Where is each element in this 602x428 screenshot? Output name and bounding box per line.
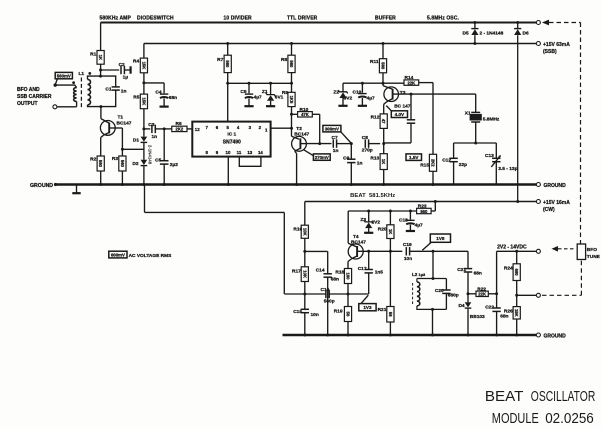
wire R24 top lead: [516, 251, 518, 263]
label 1V8 callout: [422, 234, 450, 250]
svg-text:MODULE: MODULE: [492, 411, 539, 427]
svg-text:BFO AND: BFO AND: [17, 87, 40, 93]
capacitor C19: [403, 242, 433, 262]
node beat R17 C15 junction: [303, 293, 306, 296]
resistor R13: [370, 144, 387, 185]
label BEAT 581.5KHz: [350, 193, 396, 199]
section label 5.8MHz OSC.: [427, 16, 459, 22]
resistor R11: [370, 59, 387, 73]
svg-text:12: 12: [195, 127, 200, 132]
node tank top junction: [99, 75, 102, 78]
svg-text:C3: C3: [148, 122, 154, 128]
wire tank bottom to ground: [432, 309, 434, 335]
wire R22 to C22 column: [488, 293, 496, 295]
node R2 ground: [99, 183, 102, 186]
node SSB rail junction R7: [226, 42, 229, 45]
svg-text:10: 10: [226, 150, 231, 155]
node R20 rail junction: [389, 210, 392, 213]
node R4 C4 junction: [142, 81, 145, 84]
svg-text:10K: 10K: [302, 228, 307, 236]
svg-text:AC VOLTAGE RMS: AC VOLTAGE RMS: [129, 253, 173, 259]
resistor R10: [292, 107, 313, 117]
svg-text:BFO: BFO: [587, 247, 597, 253]
svg-text:C6: C6: [240, 89, 246, 95]
label 300mV callout: [323, 125, 351, 143]
node C22 ground: [495, 334, 498, 337]
wire output bottom to L1 primary: [57, 101, 77, 106]
capacitor C20: [435, 279, 459, 310]
svg-text:L2: L2: [412, 272, 418, 277]
svg-text:1.5V: 1.5V: [409, 155, 419, 160]
svg-text:2K2: 2K2: [176, 127, 184, 132]
wire R26 to ground: [516, 319, 518, 335]
transistor T1: [100, 115, 131, 136]
node C21 R22 D4 junction: [467, 292, 470, 295]
node T2 emitter ground: [295, 183, 298, 186]
svg-text:BC147: BC147: [117, 121, 132, 127]
svg-text:22K: 22K: [408, 80, 416, 85]
node R24 R26 junction: [515, 294, 518, 297]
svg-text:C10: C10: [353, 89, 362, 95]
capacitor C4: [155, 89, 177, 106]
svg-text:R13: R13: [370, 156, 379, 162]
terminal output bottom: [53, 105, 57, 109]
svg-text:22p: 22p: [459, 162, 467, 168]
resistor R15: [420, 154, 436, 171]
resistor R2: [90, 156, 104, 171]
node SSB rail junction D5: [473, 42, 476, 45]
svg-text:SN7490: SN7490: [223, 139, 241, 145]
node tank bottom junction: [99, 105, 102, 108]
svg-text:R12: R12: [371, 114, 380, 120]
wire R14 to R15 column: [419, 83, 433, 155]
transistor T3: [383, 86, 411, 110]
svg-text:T4: T4: [353, 234, 359, 240]
node R16 C14 junction: [303, 250, 306, 253]
transistor T2: [292, 126, 310, 151]
resistor R24: [504, 264, 520, 281]
svg-text:15K: 15K: [514, 309, 519, 317]
node CW rail D6 junction: [516, 200, 519, 203]
svg-text:R8: R8: [281, 57, 287, 63]
wire R7 top lead: [227, 44, 229, 56]
svg-text:560: 560: [225, 60, 230, 68]
svg-text:C13: C13: [485, 153, 494, 159]
section label 10 DIVIDER: [224, 16, 253, 22]
ground symbol on bus: [72, 185, 80, 194]
svg-text:270mV: 270mV: [315, 155, 329, 160]
section label DIODESWITCH: [137, 16, 174, 22]
wire R16 to R17: [304, 238, 306, 266]
svg-text:2 - 1N4148: 2 - 1N4148: [480, 31, 504, 37]
svg-text:2K2: 2K2: [431, 159, 436, 167]
svg-text:GROUND: GROUND: [544, 334, 567, 340]
svg-text:+15V 16mA: +15V 16mA: [543, 200, 570, 206]
wire D1 to D2: [143, 143, 145, 160]
wire R10 to T2 collector node: [312, 114, 319, 143]
node C10 junction: [361, 82, 364, 85]
svg-text:(SSB): (SSB): [543, 49, 557, 55]
wire IC1 pin 5 to R7 node: [227, 83, 229, 121]
crystal X1: [465, 111, 500, 123]
potentiometer BFO TUNE: [552, 244, 601, 260]
node R13 ground: [382, 183, 385, 186]
svg-text:SSB CARRIER: SSB CARRIER: [17, 94, 52, 100]
svg-text:D1: D1: [133, 137, 139, 143]
node top bus right terminal: [536, 21, 540, 25]
capacitor C9: [343, 144, 362, 185]
node C15 ground: [303, 334, 306, 337]
resistor R21: [378, 251, 394, 335]
svg-text:14: 14: [258, 150, 263, 155]
terminal GROUND right: [536, 183, 566, 190]
svg-text:D5: D5: [463, 31, 469, 37]
wire +15V CW rail: [305, 201, 537, 203]
terminal +15V 16mA CW: [536, 200, 570, 214]
wire junction to C14: [305, 251, 328, 273]
svg-text:1n: 1n: [357, 160, 363, 166]
wire R1 top lead from bus: [100, 23, 102, 51]
wire R16 column from CW rail: [304, 202, 306, 226]
svg-text:560: 560: [420, 209, 428, 214]
capacitor C21: [457, 267, 482, 294]
terminal BFO tune return: [536, 293, 540, 297]
resistor R4: [133, 58, 147, 73]
node R26 ground: [515, 334, 518, 337]
wire R12 to node B: [383, 128, 385, 143]
svg-text:+15V 63mA: +15V 63mA: [543, 42, 570, 48]
svg-text:D2: D2: [132, 161, 138, 167]
svg-text:R1: R1: [90, 52, 96, 58]
svg-text:R16: R16: [293, 226, 302, 232]
svg-text:600mV: 600mV: [111, 252, 125, 257]
label 1V3 callout: [359, 295, 376, 311]
svg-text:BEAT: BEAT: [485, 389, 524, 405]
diode D2: [132, 160, 147, 167]
node R19 ground: [347, 334, 350, 337]
svg-text:D4: D4: [458, 303, 464, 309]
node pin1 junction: [290, 127, 293, 130]
svg-text:560p: 560p: [324, 298, 335, 304]
svg-text:580KHz AMP: 580KHz AMP: [100, 16, 132, 22]
wire SSB rail corner down to R4: [143, 44, 145, 59]
label 2-1N4148 vertical: [148, 145, 153, 165]
wire R17 to beat node: [304, 282, 306, 295]
diode D1: [133, 137, 147, 144]
svg-text:R10: R10: [300, 107, 309, 113]
node C14 ground: [326, 334, 329, 337]
resistor R26: [504, 307, 520, 319]
label GROUND left: [30, 183, 57, 189]
resistor R18: [335, 269, 351, 284]
svg-text:2µ2: 2µ2: [170, 162, 178, 168]
svg-text:8V2: 8V2: [344, 96, 353, 102]
wire tank loop bottom: [88, 90, 116, 107]
svg-text:15K: 15K: [141, 62, 146, 70]
node R10 junction: [290, 113, 293, 116]
svg-text:R4: R4: [133, 59, 139, 65]
node D5 top bus junction: [473, 21, 476, 24]
svg-text:2V2: 2V2: [372, 219, 381, 225]
svg-text:68n: 68n: [331, 277, 339, 283]
svg-text:4.0V: 4.0V: [395, 112, 405, 117]
svg-text:1µ: 1µ: [123, 75, 129, 81]
svg-text:R9: R9: [282, 90, 288, 96]
svg-text:R26: R26: [504, 309, 513, 315]
svg-text:GROUND: GROUND: [544, 183, 567, 189]
wire lower ground bus: [283, 334, 537, 336]
wire R15 to ground: [432, 171, 434, 184]
svg-text:R22: R22: [477, 286, 486, 292]
svg-text:R3: R3: [112, 156, 118, 162]
svg-text:BC147: BC147: [294, 131, 309, 137]
svg-text:02.0256: 02.0256: [545, 411, 594, 427]
svg-text:560: 560: [120, 160, 125, 168]
node R3 ground: [121, 183, 124, 186]
svg-text:TTL DRIVER: TTL DRIVER: [287, 16, 318, 22]
svg-text:L1: L1: [79, 71, 85, 77]
svg-text:13: 13: [247, 150, 252, 155]
resistor R3: [112, 156, 126, 171]
svg-text:C20: C20: [435, 288, 444, 294]
resistor R6: [172, 121, 187, 132]
section label BUFFER: [375, 16, 396, 22]
wire top +15V common bus: [101, 22, 537, 24]
svg-text:680: 680: [514, 269, 519, 277]
node R24 junction 2V2 line: [515, 250, 518, 253]
resistor R16: [293, 225, 308, 238]
capacitor C18: [399, 211, 423, 231]
svg-text:R19: R19: [334, 309, 343, 315]
wire D2 to ground bus: [143, 166, 145, 184]
capacitor C16: [305, 287, 348, 305]
node Z3 rail junction: [367, 210, 370, 213]
resistor R8: [281, 55, 295, 72]
wire C22 column: [496, 251, 498, 308]
svg-text:4µ7: 4µ7: [367, 96, 375, 102]
node base wire junction: [121, 148, 124, 151]
section label 580KHz AMP: [100, 16, 132, 22]
wire R11 top lead: [382, 44, 384, 59]
wire R2 to ground: [100, 171, 102, 185]
svg-text:BUFFER: BUFFER: [375, 16, 396, 22]
svg-text:R20: R20: [378, 227, 387, 233]
capacitor C11 unlabeled: [407, 94, 415, 143]
resistor R22: [468, 286, 488, 296]
svg-text:1K: 1K: [98, 55, 103, 60]
text BFO AND SSB CARRIER OUTPUT: [17, 87, 52, 107]
svg-text:OSCILLATOR: OSCILLATOR: [531, 389, 596, 405]
node C9 ground: [350, 183, 353, 186]
capacitor C10: [353, 83, 376, 106]
wire T4 emitter to R18: [348, 259, 351, 269]
svg-text:T2: T2: [296, 126, 302, 132]
node D2 ground junction: [142, 183, 145, 186]
svg-text:47: 47: [381, 119, 386, 124]
svg-text:15K: 15K: [141, 98, 146, 106]
wire R9 down to T2 base: [292, 107, 300, 140]
node Z1 junction: [269, 82, 272, 85]
svg-text:T3: T3: [400, 90, 406, 96]
wire T1 emitter to R2: [101, 135, 104, 156]
wire R18 to junction: [347, 284, 349, 295]
node D4 ground: [467, 334, 470, 337]
svg-text:C5: C5: [155, 158, 161, 164]
svg-text:IC 1: IC 1: [227, 131, 236, 137]
resistor R12: [371, 114, 388, 128]
svg-text:R21: R21: [378, 307, 387, 313]
node SSB rail junction R11: [382, 42, 385, 45]
title BEAT OSCILLATOR: [485, 389, 595, 405]
terminal output top: [54, 83, 57, 86]
svg-text:C9: C9: [343, 156, 349, 162]
svg-text:T1: T1: [118, 115, 124, 121]
svg-text:C1: C1: [105, 86, 111, 92]
node C3 C5 R6 junction: [163, 127, 166, 130]
zener Z2: [333, 83, 352, 106]
svg-text:680p: 680p: [448, 292, 459, 298]
wire R1 bottom to tank top: [100, 64, 102, 76]
resistor R19: [334, 294, 352, 335]
node T2 collector R10 junction: [318, 142, 321, 145]
wire IC1 pin1 to T2: [271, 127, 292, 129]
svg-text:C12: C12: [442, 158, 451, 164]
wire R7 bottom node wire: [228, 73, 292, 84]
wire junction to BFO tune terminal: [517, 294, 537, 296]
svg-text:C4: C4: [155, 89, 161, 95]
svg-text:C14: C14: [316, 267, 325, 273]
node B junction R12 R13: [382, 142, 385, 145]
node R23 CW rail junction: [434, 200, 437, 203]
wire R11 bottom node: [382, 73, 384, 86]
wire dashed to BFO TUNE pot bottom: [542, 260, 581, 296]
wire dashed to BFO TUNE top with arrow: [542, 20, 581, 244]
svg-text:C17: C17: [358, 266, 367, 272]
svg-text:GROUND: GROUND: [30, 183, 53, 189]
node pin10 ground: [227, 183, 230, 186]
terminal GROUND lower: [536, 333, 566, 340]
wire junction down to tank: [432, 251, 434, 278]
svg-text:1µ3: 1µ3: [419, 272, 427, 277]
node tank top: [474, 142, 477, 145]
wire R8 top lead: [291, 44, 293, 56]
wire junction to C17 corner: [348, 293, 369, 295]
svg-text:D6: D6: [523, 31, 529, 37]
svg-text:1K5: 1K5: [289, 96, 294, 104]
svg-text:5.8MHz OSC.: 5.8MHz OSC.: [427, 16, 459, 22]
node A mixer junction: [350, 142, 353, 145]
svg-text:BEAT 581.5KHz: BEAT 581.5KHz: [350, 193, 396, 199]
resistor R5: [133, 94, 147, 109]
node C6 junction: [248, 82, 251, 85]
wire R5 down to diode column: [143, 109, 145, 137]
node C3 junction: [142, 127, 145, 130]
node C18 rail junction: [409, 210, 412, 213]
svg-text:1n: 1n: [121, 89, 127, 95]
capacitor C6: [240, 83, 262, 106]
svg-text:OUTPUT: OUTPUT: [17, 101, 38, 107]
svg-text:C7: C7: [332, 135, 338, 141]
zener Z3: [360, 211, 380, 233]
diode D5: [463, 23, 504, 44]
svg-text:C8: C8: [362, 135, 368, 141]
capacitor C5: [155, 129, 178, 185]
wire R24 to junction: [516, 281, 518, 307]
wire R4 to R5: [143, 73, 145, 94]
svg-text:Z1: Z1: [262, 89, 268, 95]
svg-text:C16: C16: [321, 287, 330, 293]
wire upper ground bus: [55, 183, 536, 185]
svg-text:10n: 10n: [404, 256, 412, 262]
svg-text:C22: C22: [485, 304, 494, 310]
node SSB rail junction R8: [290, 42, 293, 45]
svg-text:1K: 1K: [381, 159, 386, 164]
svg-text:R6: R6: [176, 121, 182, 127]
svg-text:68n: 68n: [474, 270, 482, 276]
wire tank loop top: [88, 76, 116, 87]
svg-text:56: 56: [388, 312, 393, 317]
wire beat line from diode switch: [145, 185, 305, 295]
transistor T4: [348, 234, 366, 259]
resistor R14: [383, 75, 419, 85]
svg-text:1V8: 1V8: [436, 236, 445, 241]
svg-text:BB103: BB103: [470, 314, 485, 320]
svg-text:560: 560: [381, 62, 386, 70]
svg-text:11: 11: [237, 150, 242, 155]
svg-text:560: 560: [289, 60, 294, 68]
svg-text:R15: R15: [420, 163, 429, 169]
node R7 wire junction: [226, 82, 229, 85]
terminal +15V 63mA SSB: [536, 42, 570, 56]
svg-text:5.8MHz: 5.8MHz: [483, 117, 500, 123]
svg-text:300mV: 300mV: [325, 126, 339, 131]
wire R23 to CW rail: [431, 202, 435, 212]
resistor R17: [292, 267, 308, 282]
node D6 top bus junction: [516, 21, 519, 24]
wire R3 to ground: [121, 171, 123, 185]
svg-text:68n: 68n: [169, 95, 177, 101]
wire R8 to R9: [291, 73, 293, 93]
svg-text:10K: 10K: [302, 270, 307, 278]
svg-text:R5: R5: [133, 95, 139, 101]
svg-text:R14: R14: [405, 75, 414, 81]
label 2V2 - 14VDC: [497, 244, 527, 250]
wire junction to R6: [164, 128, 172, 130]
wire junction to C4: [144, 83, 164, 93]
capacitor C17: [358, 251, 384, 294]
wire T3 collector line: [398, 93, 475, 95]
svg-text:R17: R17: [292, 269, 301, 275]
svg-text:560: 560: [98, 160, 103, 168]
resistor R23: [417, 204, 432, 214]
node C17 collector junction: [367, 250, 370, 253]
resistor R20: [378, 211, 394, 251]
svg-text:Z2: Z2: [333, 89, 339, 95]
svg-text:4µ7: 4µ7: [415, 223, 423, 229]
svg-text:56: 56: [346, 312, 351, 317]
wire T2 collector to C7: [306, 143, 331, 145]
terminal 2V2-14VDC: [536, 249, 540, 253]
node collector R20 R21 junction: [389, 250, 392, 253]
node C19 tank junction: [432, 250, 435, 253]
node tank bottom: [431, 308, 434, 311]
wire tank bottom to T1 collector: [101, 107, 109, 123]
svg-text:1n: 1n: [333, 148, 339, 154]
wire 2V2-14VDC line: [497, 250, 537, 252]
svg-text:1n5: 1n5: [375, 269, 384, 275]
wire crystal to tank top: [454, 122, 497, 143]
wire IC1 pin 10 to ground: [227, 157, 229, 185]
